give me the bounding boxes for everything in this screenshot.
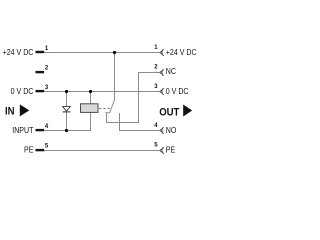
socket contact 4 right [160,127,164,133]
svg-text:1: 1 [154,45,158,51]
junction dot line4/diode [65,129,68,132]
wire NC contact branch to line2 [105,73,138,123]
wire line5 PE rail [44,150,160,152]
wire switch pole from line1 [114,53,116,101]
wire line1 +24V DC rail [44,52,160,54]
OUT arrow [183,105,192,117]
socket contact 1 right [160,49,164,55]
terminal 4 left block [36,129,45,131]
socket contact 5 right [160,147,164,153]
wire line3 0V DC rail [44,91,160,93]
wire diode upper lead [66,92,68,107]
svg-text:PE: PE [24,145,33,155]
svg-text:3: 3 [45,85,49,91]
svg-text:4: 4 [45,124,49,130]
svg-text:2: 2 [45,65,49,71]
relay coil K1 [81,104,99,113]
svg-text:NC: NC [166,67,177,77]
terminal 5 left block [36,149,45,151]
wire line4 NO segment [119,130,160,132]
junction dot line3/coil [89,90,92,93]
svg-text:1: 1 [45,46,49,52]
IN arrow [20,104,30,116]
svg-text:+24 V DC: +24 V DC [166,47,197,57]
svg-text:PE: PE [166,145,175,155]
wire coil top lead [90,92,92,105]
junction dot line1/pole [113,51,116,54]
svg-text:NO: NO [166,125,177,135]
svg-text:0 V DC: 0 V DC [166,86,189,96]
svg-text:5: 5 [45,143,49,149]
svg-text:0 V DC: 0 V DC [11,86,34,96]
socket contact 2 right [160,69,164,75]
svg-text:INPUT: INPUT [12,125,33,135]
wire line4 INPUT segment [44,130,91,132]
svg-text:+24 V DC: +24 V DC [3,47,34,57]
wire line2 NC segment [138,72,160,74]
switch blade K1 contact [110,100,115,113]
wire NO contact branch to line4 [119,113,121,131]
junction dot line3/diode [65,90,68,93]
svg-text:IN: IN [5,106,15,118]
svg-text:5: 5 [154,143,158,149]
socket contact 3 right [160,88,164,94]
svg-text:3: 3 [154,84,158,90]
svg-text:2: 2 [154,64,158,70]
wire coil bottom lead [90,112,92,130]
terminal 3 left block [36,90,45,92]
diode V1 suppressor [63,106,71,111]
terminal 2 left block [36,71,45,73]
terminal 1 left block [36,51,45,53]
wire diode lower lead [66,112,68,131]
svg-text:OUT: OUT [159,107,180,119]
mechanical link dashed [99,108,110,110]
svg-text:4: 4 [154,123,158,129]
